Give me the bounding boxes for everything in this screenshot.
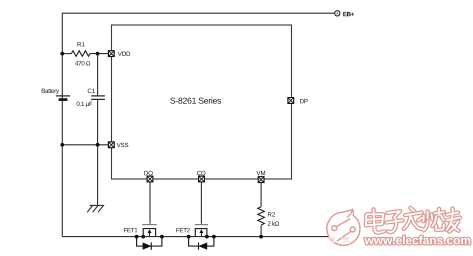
label FET2	[176, 228, 189, 232]
transistor FET1	[137, 225, 162, 250]
wire R1 right lead	[90, 53, 109, 55]
node FET2 drain junction	[205, 235, 209, 239]
wire R2 bottom	[260, 225, 262, 236]
pin label DP	[300, 99, 308, 103]
label R1	[78, 42, 85, 46]
label R2	[268, 212, 275, 216]
pin DP	[288, 98, 294, 104]
node FET1 source junction	[141, 235, 145, 239]
resistor R1	[71, 51, 90, 57]
transistor FET2	[189, 225, 214, 250]
value 2 kohm	[268, 221, 279, 225]
node FET1 diode right junction	[160, 235, 164, 239]
wire top rail B+	[62, 12, 334, 14]
label Battery	[42, 89, 59, 95]
label S-8261 Series	[170, 97, 221, 103]
pin DO	[147, 176, 153, 182]
wire VSS horizontal	[62, 144, 108, 146]
pin VM	[258, 177, 264, 183]
capacitor C1	[91, 96, 105, 100]
battery BT1	[56, 96, 70, 100]
wire bottom rail B-	[62, 236, 328, 238]
wire VM down	[260, 183, 262, 207]
IC U1 S-8261 box	[112, 25, 292, 179]
value 470 ohm	[75, 61, 90, 65]
node C1 top junction	[96, 52, 100, 56]
node FET2 diode right junction	[212, 235, 216, 239]
node FET1 diode left junction	[135, 235, 139, 239]
node FET2 diode left junction	[187, 235, 191, 239]
pin CO	[199, 176, 205, 182]
wire CO gate	[200, 182, 202, 224]
pin VSS	[108, 142, 114, 148]
value 0.1 uF	[77, 102, 93, 108]
label EB+	[343, 12, 354, 16]
pin label CO	[197, 171, 205, 175]
node R2 bottom junction	[259, 235, 263, 239]
pin label VDD	[118, 52, 130, 56]
label C1	[88, 89, 95, 93]
node VSS battery junction	[60, 143, 64, 147]
wire left battery branch	[61, 13, 63, 236]
pin VDD	[108, 51, 114, 57]
wire C1 branch / ground branch	[97, 54, 99, 206]
wire R1 left lead	[62, 53, 71, 55]
terminal EB+	[335, 11, 340, 16]
resistor R2	[258, 207, 265, 225]
pin label VM	[257, 171, 266, 175]
watermark text www.elecfans.com	[364, 236, 470, 245]
node VSS C1 junction	[96, 143, 100, 147]
ground	[87, 205, 104, 212]
node R1 left junction	[60, 52, 64, 56]
pin label VSS	[117, 143, 129, 147]
wire DO gate	[149, 182, 151, 224]
watermark text dian zi fa shao you	[366, 208, 460, 233]
label FET1	[124, 228, 137, 232]
pin label DO	[144, 171, 152, 175]
watermark logo elecfans	[327, 209, 360, 245]
